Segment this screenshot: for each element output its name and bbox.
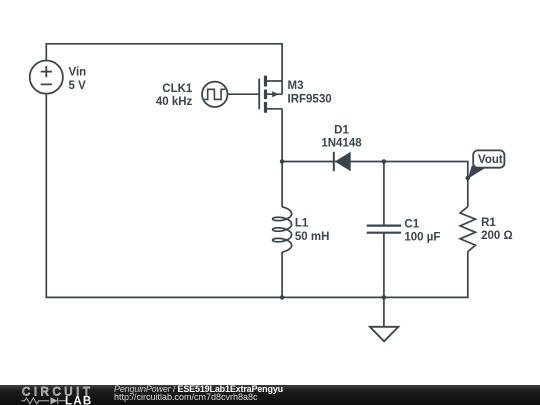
svg-text:200 Ω: 200 Ω: [481, 230, 513, 242]
svg-text:IRF9530: IRF9530: [288, 93, 332, 105]
svg-text:50 mH: 50 mH: [295, 231, 330, 243]
svg-text:C1: C1: [404, 219, 419, 231]
svg-text:Vin: Vin: [69, 67, 87, 79]
svg-text:R1: R1: [481, 217, 496, 229]
svg-text:M3: M3: [288, 80, 304, 92]
svg-text:LAB: LAB: [65, 395, 93, 405]
svg-text:5 V: 5 V: [69, 80, 87, 92]
svg-text:40 kHz: 40 kHz: [156, 96, 193, 108]
svg-text:CLK1: CLK1: [162, 83, 193, 95]
svg-text:D1: D1: [334, 125, 349, 137]
svg-text:L1: L1: [295, 218, 309, 230]
svg-text:1N4148: 1N4148: [321, 137, 362, 149]
svg-text:Vout: Vout: [478, 154, 503, 166]
svg-text:100 µF: 100 µF: [404, 232, 440, 244]
